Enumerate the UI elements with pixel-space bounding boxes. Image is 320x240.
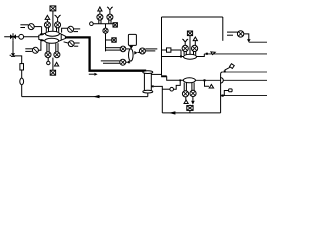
crossing hop on riser xyxy=(221,78,224,83)
pump oval P1 xyxy=(129,49,134,61)
wire arrow to gauge xyxy=(138,51,140,53)
valve V12 (circle-X) xyxy=(182,91,188,97)
valve stack stem right-top (double) xyxy=(57,28,59,32)
vent triangle T2 xyxy=(209,85,213,89)
vent triangle T3 xyxy=(184,97,188,104)
arrow up vent A1 xyxy=(45,15,50,22)
standpipe body xyxy=(144,73,151,90)
valve V7 (circle-X) xyxy=(107,14,113,20)
Y vent Y2 xyxy=(107,7,113,14)
wire E4 right joins L3 xyxy=(195,79,267,81)
node J4 xyxy=(180,56,182,58)
wire drop to x21 xyxy=(13,56,22,97)
instrument circle B3 left-lower xyxy=(25,41,41,53)
instrument circle B1 xyxy=(19,34,24,39)
valve stack stem mid-left (double) xyxy=(99,20,101,24)
line L4 to right edge xyxy=(221,95,267,97)
node J3 xyxy=(161,75,167,77)
wire standpipe to box-left xyxy=(151,73,161,75)
thick process line from manifold xyxy=(65,37,146,70)
header ellipse E3 xyxy=(184,54,197,59)
valve V4 (circle-X) xyxy=(45,52,51,58)
top-middle header line xyxy=(93,23,113,25)
gauge circle G1 impulse lines xyxy=(106,46,130,52)
arrow down A7 xyxy=(191,97,195,105)
left manifold header fan xyxy=(39,33,46,41)
wire: left inlet line xyxy=(4,36,39,38)
flow arrow right A9 xyxy=(89,73,98,76)
mid stem down with valve xyxy=(105,24,107,52)
node J6 xyxy=(204,79,206,81)
standpipe top flange xyxy=(143,71,153,74)
node J7 xyxy=(224,71,226,73)
check valve CV1 xyxy=(129,46,133,49)
valve stack stem ur-right xyxy=(194,52,196,55)
Y vent Y3 xyxy=(182,39,188,45)
wire box-left to header E3 xyxy=(162,56,184,58)
actuator box stem center-bottom xyxy=(52,58,54,71)
instrument circle B4 right-top of manifold xyxy=(62,26,81,32)
right riser xyxy=(221,72,223,113)
bottom-right line xyxy=(162,112,220,114)
branch to vent triangle xyxy=(205,80,210,86)
valve V3 (circle-X) xyxy=(55,22,61,28)
end cap circle D2 xyxy=(90,22,94,26)
actuator box stem ur-center xyxy=(189,36,191,55)
wire box-left to lower header xyxy=(167,76,185,80)
Y vent Y1 xyxy=(55,15,61,22)
big box left side xyxy=(161,17,163,75)
upper-right manifold: small square SQ1 xyxy=(162,48,182,57)
actuator box X6 xyxy=(187,105,193,113)
actuator box X1 xyxy=(50,6,56,11)
instrument circle B2 top-left xyxy=(20,24,41,34)
seal pot R1 xyxy=(128,34,136,45)
actuator box stem center-top xyxy=(52,11,54,32)
arrow up vent A6 xyxy=(193,37,197,45)
actuator box X5 xyxy=(187,31,192,36)
tag oval TG1 xyxy=(225,64,234,72)
node J9 xyxy=(222,95,224,97)
valve stack stem lr-left xyxy=(184,83,186,91)
gauge circle G3 xyxy=(139,48,157,54)
wire E3 right xyxy=(197,54,205,57)
valve V1 (closed gate) xyxy=(10,33,16,40)
valve V13 (circle-X) xyxy=(190,90,196,96)
arrow down A5 xyxy=(247,39,251,42)
node J5 xyxy=(206,53,208,55)
arrow up vent A2 xyxy=(98,7,102,14)
valve stack stem left-bottom (double) xyxy=(47,43,49,52)
arrow right A3 xyxy=(134,51,137,55)
tag oval TG2 xyxy=(224,89,232,96)
left drop: valve V9 xyxy=(10,40,16,56)
wire gauge drop xyxy=(244,34,249,40)
drain circle D1 xyxy=(47,58,50,65)
node J2 xyxy=(41,39,43,41)
drain tap nub on standpipe xyxy=(152,85,154,87)
actuator box X2 xyxy=(50,70,55,75)
valve stack stem lr-right xyxy=(192,83,194,91)
sight circle D3 xyxy=(170,87,174,91)
gauge circle G4 xyxy=(237,31,243,37)
right manifold fan xyxy=(59,33,66,41)
wire drain branch to sight circle xyxy=(162,88,170,90)
flag tag F3 xyxy=(211,52,215,55)
valve V10 (circle-X) xyxy=(182,45,188,51)
valve V5 (circle-X) xyxy=(54,52,60,58)
flow arrow left A8 xyxy=(169,111,176,114)
instrument circle B5 right-bottom of manifold xyxy=(64,41,80,47)
flow arrow left A4 xyxy=(93,95,100,98)
valve V8 (circle-X) xyxy=(103,28,108,33)
valve stack stem left-top (double) xyxy=(46,28,48,32)
valve V11 (circle-X) xyxy=(192,45,198,51)
header ellipse E1 xyxy=(45,31,59,36)
vent triangle T1 xyxy=(55,62,59,66)
valve stack stem right-bottom (double) xyxy=(56,43,58,52)
line L1 to right edge xyxy=(204,53,267,55)
inline box F1 xyxy=(20,64,24,70)
actuator box X3 xyxy=(113,23,117,27)
actuator box X4 xyxy=(112,38,116,42)
valve stack stem ur-left xyxy=(184,52,186,55)
wire drain to bottom xyxy=(154,86,163,113)
node J1 xyxy=(41,33,43,35)
header ellipse E2 xyxy=(45,38,59,43)
lower-right manifold header E4 xyxy=(183,78,195,83)
inline oval F2 xyxy=(20,78,24,85)
gauge circle G2 impulse lines xyxy=(101,59,130,65)
big box right side upper xyxy=(222,17,224,41)
line L2 to right edge xyxy=(223,71,267,73)
wire to actuator box X4 xyxy=(106,39,112,41)
valve stack stem mid-right (double) xyxy=(109,20,111,24)
standpipe bottom flange xyxy=(143,90,153,93)
valve V6 (circle-X) xyxy=(97,14,103,20)
wire sight circle up to header line xyxy=(174,80,181,89)
big box outline top xyxy=(162,16,223,18)
gauge tails top right xyxy=(227,32,238,35)
valve V2 (circle-X) xyxy=(44,22,50,28)
bottom long line xyxy=(22,93,148,97)
